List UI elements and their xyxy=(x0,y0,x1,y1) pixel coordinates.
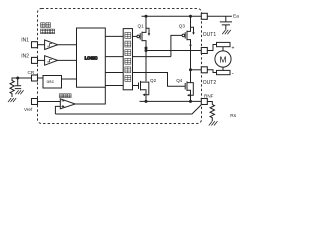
wire interlock to Q3 gate (via riser) xyxy=(133,56,171,58)
pin RNF xyxy=(201,99,207,105)
ground under Rs xyxy=(209,121,218,125)
wire buffer2 to logic xyxy=(58,59,77,61)
pin IN2 xyxy=(32,57,38,63)
svg-text:OUT2: OUT2 xyxy=(203,80,217,86)
svg-text:LOGIC: LOGIC xyxy=(85,55,98,60)
schmitt buffer A1 xyxy=(45,40,58,50)
oscillator box xyxy=(43,76,62,89)
svg-text:Q1: Q1 xyxy=(138,23,145,28)
svg-text:OUT1: OUT1 xyxy=(203,32,217,38)
pin and component labels xyxy=(21,14,239,119)
wire comparator + input from sense line xyxy=(55,106,60,114)
node rail-Q1 xyxy=(145,15,148,18)
pin CR xyxy=(32,75,38,81)
pin Vref xyxy=(32,99,38,105)
label comparator (比较器) xyxy=(59,94,71,98)
svg-text:RNF: RNF xyxy=(204,94,214,99)
capacitor Ct (CR timing) xyxy=(15,78,21,89)
top supply rail xyxy=(142,15,202,17)
motor M xyxy=(217,42,231,46)
transistor Q3 xyxy=(171,35,182,56)
transistor Q2 xyxy=(133,85,139,87)
wire logic to interlock stub1 xyxy=(105,35,123,37)
wire OUT1 to motor xyxy=(207,45,216,51)
wire Ea xyxy=(207,15,232,17)
logic box U1 xyxy=(77,28,106,87)
OUT1 node line xyxy=(146,50,201,52)
wire comparator output to logic xyxy=(75,87,105,104)
svg-text:osc: osc xyxy=(47,80,55,85)
wire osc to logic xyxy=(62,78,77,80)
wire IN2 to buffer xyxy=(38,59,45,61)
interlock box (同时导通防止) xyxy=(123,29,132,90)
wire logic to interlock stub3 xyxy=(105,72,123,74)
pin OUT2 xyxy=(201,67,207,73)
sense line RNF to comparator xyxy=(55,105,201,115)
wire buffer1 to logic xyxy=(58,44,77,46)
capacitor Ea bypass xyxy=(220,16,232,30)
svg-text:Q3: Q3 xyxy=(179,23,186,28)
wire CR node to pin xyxy=(18,77,32,79)
svg-text:Vref: Vref xyxy=(24,107,33,112)
OUT2 node line xyxy=(189,68,192,71)
svg-text:Q4: Q4 xyxy=(176,78,183,83)
svg-text:Rs: Rs xyxy=(230,113,236,119)
transistor Q1 xyxy=(133,35,137,37)
ground under Ct xyxy=(15,90,23,94)
ground under Ea cap xyxy=(222,30,231,34)
wire logic to interlock stub4 xyxy=(105,85,123,87)
wire Q1/Q2 column xyxy=(145,51,147,82)
svg-text:+: + xyxy=(232,46,235,52)
svg-text:Q2: Q2 xyxy=(150,78,157,83)
wire logic to interlock stub2 xyxy=(105,56,123,58)
svg-text:CR: CR xyxy=(28,70,35,75)
wire CR pin to osc xyxy=(38,77,44,79)
svg-text:M: M xyxy=(219,54,226,64)
svg-text:-: - xyxy=(232,71,234,77)
node rail-Q3 xyxy=(189,15,192,18)
pin OUT1 xyxy=(201,48,207,54)
resistor Rt (CR timing) xyxy=(10,78,18,97)
label hysteresis-buffer (磁滞缓冲器) xyxy=(41,23,55,34)
pin Ea xyxy=(201,13,207,19)
bottom rail xyxy=(140,100,202,102)
svg-text:IN1: IN1 xyxy=(21,37,29,43)
IC dashed boundary xyxy=(38,9,202,124)
wire RNF to Rs xyxy=(207,102,212,105)
resistor Rs xyxy=(210,105,214,122)
ground under Rt xyxy=(8,98,16,102)
pin IN1 xyxy=(32,42,38,48)
wire Vref to comparator - input xyxy=(38,101,61,103)
transistor Q4 xyxy=(184,83,186,89)
schmitt buffer A2 xyxy=(45,56,58,65)
wire IN1 to buffer xyxy=(38,44,45,46)
wire interlock to Q4 gate xyxy=(133,73,186,87)
svg-text:Ea: Ea xyxy=(233,14,239,20)
svg-text:IN2: IN2 xyxy=(21,54,29,60)
wire OUT2 to motor xyxy=(207,70,216,73)
node CR junction xyxy=(16,77,19,80)
comparator xyxy=(60,99,75,109)
